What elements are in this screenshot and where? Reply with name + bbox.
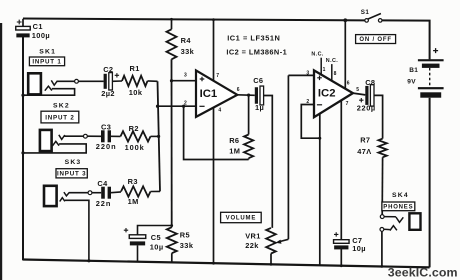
resistor R7: [357, 135, 387, 157]
resistor R1: [122, 64, 148, 97]
wire R2 to summing node: [151, 135, 161, 138]
wire SK2 sleeve to ground bus: [21, 144, 86, 155]
jack socket SK1: [28, 73, 57, 94]
label SK4: [392, 192, 409, 199]
svg-text:R7: R7: [360, 135, 370, 144]
svg-text:47Λ: 47Λ: [357, 147, 371, 156]
wire feedback loop: [184, 106, 249, 159]
svg-text:VOLUME: VOLUME: [226, 216, 256, 222]
svg-text:100µ: 100µ: [32, 31, 50, 40]
label INPUT 2: [41, 111, 79, 123]
wire top supply rail: [23, 19, 365, 21]
svg-text:33k: 33k: [181, 47, 195, 56]
wire C8 to R7: [374, 95, 383, 138]
svg-text:R1: R1: [130, 64, 140, 73]
label PHONES: [382, 202, 415, 211]
wire SK3 sleeve to ground rail: [65, 200, 91, 262]
jack socket SK3: [44, 186, 69, 206]
wire SK4 sleeve to ground: [381, 231, 384, 267]
svg-text:9V: 9V: [407, 79, 416, 86]
resistor R6: [229, 95, 253, 159]
wire SK1 contact to C2: [78, 80, 103, 82]
svg-text:SK4: SK4: [392, 192, 409, 199]
svg-text:S1: S1: [361, 9, 370, 16]
label INPUT 1: [29, 57, 64, 66]
svg-text:IC1: IC1: [200, 88, 218, 100]
potentiometer VR1: [245, 228, 276, 266]
svg-text:7: 7: [216, 73, 219, 79]
svg-text:22n: 22n: [96, 199, 111, 208]
svg-text:VR1: VR1: [245, 232, 261, 241]
svg-text:33k: 33k: [180, 241, 194, 250]
switch S1: [361, 9, 382, 22]
svg-text:3: 3: [184, 73, 187, 79]
svg-text:IC2: IC2: [318, 87, 336, 99]
svg-text:N.C.: N.C.: [311, 52, 323, 58]
jack socket SK2: [40, 130, 65, 151]
svg-text:10µ: 10µ: [150, 242, 164, 251]
capacitor C1: [16, 19, 50, 40]
svg-text:C1: C1: [33, 22, 43, 31]
svg-text:6: 6: [237, 87, 240, 93]
wire VR1 wiper: [275, 75, 288, 243]
svg-text:SK3: SK3: [65, 159, 82, 166]
svg-text:R5: R5: [180, 230, 190, 239]
wire IC2 pin 7 to C7: [340, 100, 342, 240]
wire IC1 pin 2 input: [156, 105, 196, 108]
capacitor C5: [124, 226, 172, 262]
wire C4 to R3: [111, 191, 121, 194]
svg-text:INPUT 2: INPUT 2: [45, 114, 74, 121]
svg-text:5: 5: [356, 87, 359, 93]
svg-text:R2: R2: [129, 124, 139, 133]
node SK4 tip contact: [380, 215, 384, 219]
svg-text:6: 6: [347, 80, 350, 86]
label IC2 equation: [226, 48, 287, 57]
wire IC2 output: [353, 93, 365, 95]
svg-text:INPUT 1: INPUT 1: [32, 59, 61, 66]
svg-text:220µ: 220µ: [357, 103, 376, 112]
wire SK1 sleeve to ground bus: [21, 89, 74, 97]
svg-text:SK2: SK2: [53, 103, 70, 110]
svg-text:1µ: 1µ: [255, 103, 264, 112]
svg-text:ON / OFF: ON / OFF: [359, 37, 391, 43]
node SK1 break contact: [75, 79, 79, 83]
svg-text:22k: 22k: [245, 241, 259, 250]
node SK4 sleeve contact: [380, 228, 384, 232]
svg-text:100k: 100k: [125, 143, 145, 152]
label VOLUME: [221, 212, 262, 222]
svg-text:3eekIC.com: 3eekIC.com: [388, 265, 458, 279]
capacitor C7: [334, 232, 366, 267]
label INPUT 3: [56, 169, 87, 178]
wire R7 to SK4: [381, 157, 383, 214]
svg-text:PHONES: PHONES: [383, 205, 413, 211]
label SK3: [65, 159, 82, 166]
label IC1 equation: [227, 34, 280, 43]
watermark: [388, 265, 458, 279]
wire IC2 pin 8 NC: [331, 64, 333, 81]
op-amp IC1: [184, 70, 240, 117]
node SK2 break contact: [84, 134, 88, 138]
wire summing node vertical: [158, 81, 161, 191]
wire R5 to ground rail: [171, 253, 173, 262]
op-amp IC2: [306, 67, 359, 117]
battery B1: [407, 48, 443, 98]
wire R3 to summing node: [151, 190, 161, 192]
svg-text:INPUT 3: INPUT 3: [57, 171, 86, 178]
svg-text:C2: C2: [103, 65, 113, 74]
wire SK4 sleeve contact: [384, 228, 390, 230]
wire rail from S1 to battery: [382, 20, 430, 59]
svg-text:8: 8: [334, 71, 337, 77]
svg-text:C3: C3: [101, 123, 111, 132]
wire IC2 pin 4 to ground: [319, 114, 321, 265]
svg-text:C6: C6: [253, 76, 263, 85]
resistor R5: [167, 227, 194, 253]
capacitor C4: [96, 179, 111, 208]
wire bottom ground rail: [23, 260, 430, 268]
node SK3 break contact: [88, 191, 92, 195]
svg-text:SK1: SK1: [39, 48, 56, 55]
svg-text:IC2 = LM386N-1: IC2 = LM386N-1: [226, 48, 287, 57]
svg-text:3: 3: [306, 70, 309, 76]
capacitor C3: [96, 123, 117, 152]
wire SK1 tip to C2: [57, 80, 75, 82]
wire IC2 pin 1 NC: [320, 58, 322, 75]
svg-text:C5: C5: [151, 233, 161, 242]
wire SK2 tip to C3: [64, 135, 83, 137]
svg-text:C8: C8: [365, 78, 375, 87]
label ON / OFF: [356, 35, 396, 44]
wire IC1 pin 4 to ground: [212, 107, 215, 264]
wire C6 to VR1: [264, 96, 272, 228]
label SK1: [39, 48, 56, 55]
resistor R4: [167, 18, 195, 59]
svg-text:R6: R6: [229, 136, 239, 145]
wire IC1 output: [237, 94, 255, 97]
wire SK2 contact to C3: [87, 135, 101, 137]
svg-text:N.C.: N.C.: [326, 58, 338, 64]
svg-text:C4: C4: [97, 179, 108, 188]
resistor R2: [121, 124, 151, 152]
svg-text:10µ: 10µ: [352, 244, 366, 253]
wire IC2 pin 2 ground loop: [301, 105, 321, 140]
label SK2: [53, 103, 70, 110]
wire right rail battery to bottom: [429, 98, 431, 268]
wire IC2 pin 6 to rail: [343, 18, 347, 89]
wire bias line: [170, 59, 173, 227]
svg-text:220n: 220n: [96, 142, 117, 151]
label N.C. pin 1: [311, 52, 323, 58]
wire wiper to IC2 pin 3: [288, 74, 314, 76]
svg-text:1: 1: [323, 67, 326, 73]
wire C2 to R1: [112, 80, 122, 82]
wire SK3 contact to C4: [92, 192, 101, 194]
wire SK3 tip to C4: [69, 192, 88, 194]
wire R1 to summing node: [148, 80, 158, 82]
svg-text:1M: 1M: [229, 146, 240, 155]
capacitor C8: [357, 78, 376, 112]
svg-text:R3: R3: [128, 177, 138, 186]
capacitor C6: [249, 76, 264, 112]
capacitor C2: [101, 65, 119, 98]
label N.C. pin 8: [326, 58, 338, 64]
svg-text:IC1 = LF351N: IC1 = LF351N: [227, 34, 280, 43]
wire left ground bus: [22, 34, 24, 261]
svg-text:1M: 1M: [128, 197, 139, 206]
svg-text:10k: 10k: [129, 88, 143, 97]
svg-text:7: 7: [346, 101, 349, 107]
svg-text:4: 4: [218, 107, 221, 113]
svg-text:R4: R4: [181, 36, 192, 45]
svg-text:2µ2: 2µ2: [101, 89, 115, 98]
wire to IC1 pin 3: [172, 80, 196, 82]
jack socket SK4: [390, 213, 421, 230]
wire IC1 pin 7 to rail: [212, 18, 215, 81]
wire SK4 tip contact: [384, 216, 396, 218]
resistor R3: [121, 177, 151, 206]
wire C3 to R2: [111, 135, 121, 137]
svg-text:B1: B1: [409, 67, 418, 74]
